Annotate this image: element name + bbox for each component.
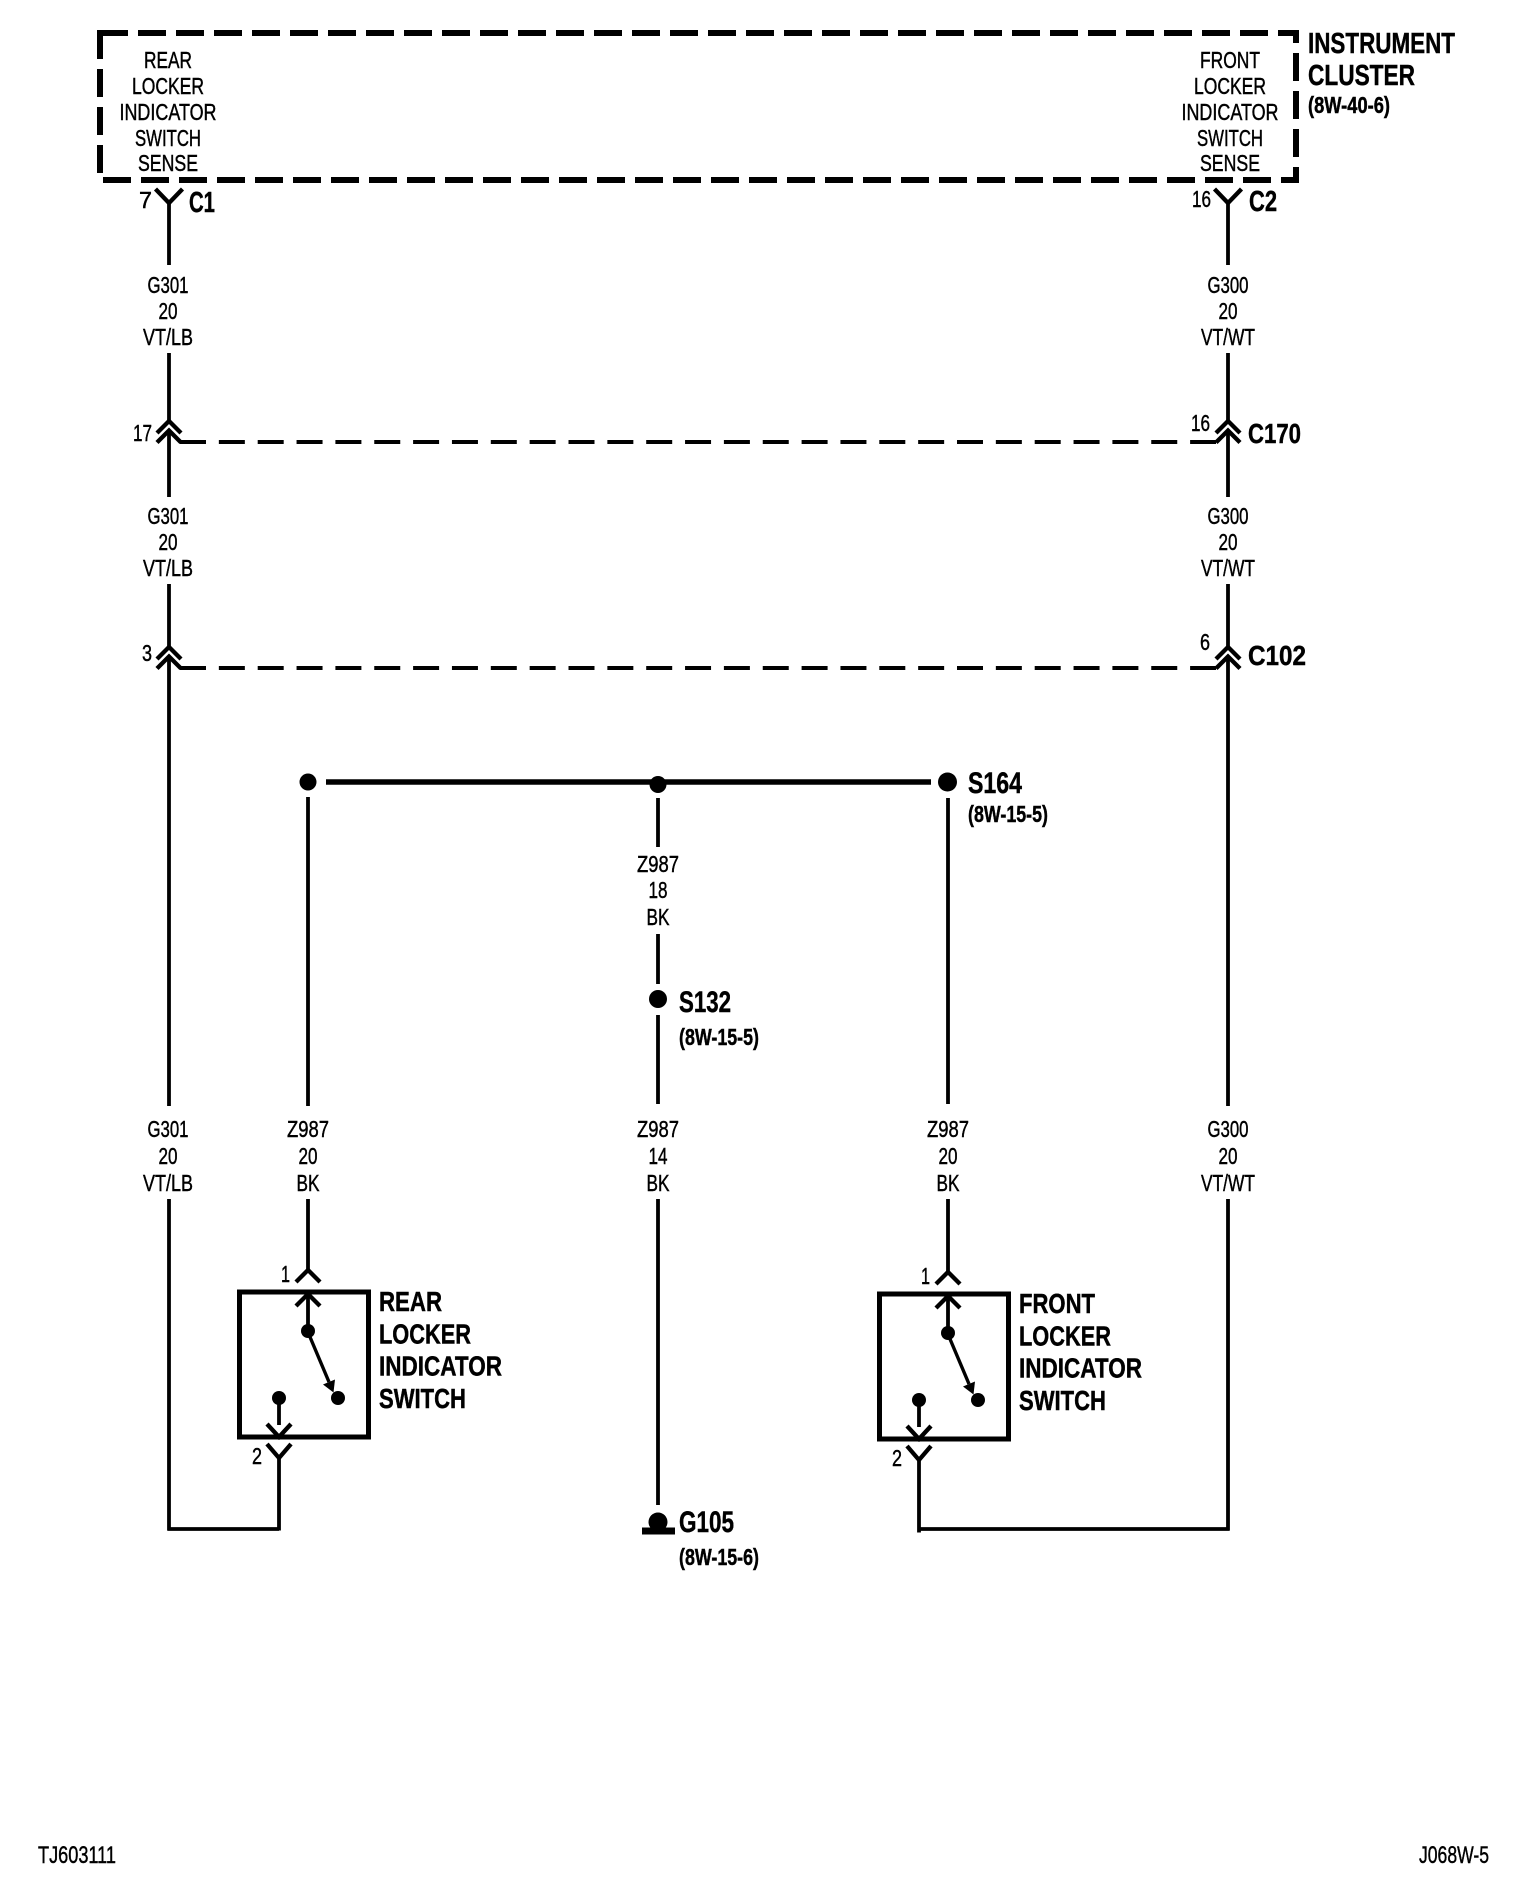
- rear locker indicator switch closed-position contact dot: [331, 1391, 345, 1405]
- svg-text:INSTRUMENT: INSTRUMENT: [1308, 28, 1455, 60]
- wire Z987 14 (S132 down to label): [656, 1015, 660, 1104]
- wire G301 (C1 to label): [167, 203, 171, 265]
- wire Z987 20 (label to rear switch pin 1): [306, 1199, 310, 1271]
- svg-text:CLUSTER: CLUSTER: [1308, 60, 1415, 92]
- svg-text:BK: BK: [297, 1170, 320, 1196]
- svg-text:(8W-15-5): (8W-15-5): [968, 801, 1048, 827]
- wire label Z987 20 BK (rear switch feed): [287, 1116, 329, 1196]
- connector C102 left half (pin 3): [142, 640, 181, 669]
- front locker indicator switch pin-2 internal lead: [907, 1406, 931, 1439]
- svg-text:BK: BK: [647, 1170, 670, 1196]
- wire Z987 20 (bus to lower label, rear): [306, 797, 310, 1106]
- svg-text:3: 3: [142, 640, 152, 666]
- svg-text:FRONT: FRONT: [1200, 47, 1260, 73]
- wire G300 (label to C170): [1226, 353, 1230, 421]
- svg-text:1: 1: [921, 1263, 930, 1289]
- svg-text:Z987: Z987: [927, 1116, 969, 1142]
- svg-text:G300: G300: [1208, 1116, 1249, 1142]
- wire G301 (C102 down to lower label): [167, 657, 171, 1107]
- front locker indicator switch pin 2 connector: [892, 1445, 931, 1533]
- node: front locker indicator switch sense (cluster pin label): [1182, 47, 1279, 176]
- front locker indicator switch pin-2 contact dot: [912, 1393, 926, 1407]
- splice S164 dot and label: [938, 767, 1048, 827]
- sheet number J068W-5: [1419, 1842, 1489, 1869]
- wire label Z987 20 BK (front switch feed): [927, 1116, 969, 1196]
- svg-text:Z987: Z987: [287, 1116, 329, 1142]
- wire G301 (label to C102): [167, 584, 171, 647]
- wire label Z987 14 BK: [637, 1116, 679, 1196]
- svg-text:VT/LB: VT/LB: [143, 555, 193, 581]
- svg-text:20: 20: [159, 298, 178, 324]
- ground G105 symbol and label: [642, 1506, 759, 1570]
- svg-text:VT/LB: VT/LB: [143, 1170, 193, 1196]
- svg-text:J068W-5: J068W-5: [1419, 1842, 1489, 1869]
- connector C2 pin 16: [1192, 186, 1277, 218]
- rear locker indicator switch pin 1 connector: [281, 1261, 320, 1287]
- svg-text:G105: G105: [679, 1506, 734, 1539]
- junction dot at left end of bus: [300, 774, 317, 791]
- wire label G301 20 VT/LB (mid left): [143, 503, 193, 581]
- svg-text:SENSE: SENSE: [138, 150, 198, 176]
- svg-text:VT/LB: VT/LB: [143, 324, 193, 350]
- svg-text:FRONT: FRONT: [1019, 1288, 1095, 1319]
- svg-text:BK: BK: [937, 1170, 960, 1196]
- front locker indicator switch closed-position contact dot: [971, 1393, 985, 1407]
- svg-text:C102: C102: [1248, 640, 1306, 671]
- svg-text:C170: C170: [1248, 418, 1301, 449]
- wire label Z987 18 BK: [637, 851, 679, 930]
- svg-text:17: 17: [133, 420, 152, 446]
- svg-text:INDICATOR: INDICATOR: [379, 1351, 502, 1382]
- wire Z987 18 (bus to label): [656, 798, 660, 847]
- svg-text:S132: S132: [679, 986, 731, 1019]
- svg-text:LOCKER: LOCKER: [132, 73, 204, 99]
- svg-text:14: 14: [649, 1143, 668, 1169]
- rear locker indicator switch caption: [379, 1286, 502, 1414]
- svg-text:C1: C1: [189, 187, 215, 219]
- svg-text:G300: G300: [1208, 272, 1249, 298]
- svg-text:BK: BK: [647, 904, 670, 930]
- svg-text:20: 20: [1219, 529, 1238, 555]
- svg-text:TJ603111: TJ603111: [38, 1842, 116, 1869]
- wire label G301 20 VT/LB (lower left): [143, 1116, 193, 1196]
- svg-text:SWITCH: SWITCH: [1197, 125, 1263, 151]
- wire G301 (label to C170): [167, 353, 171, 421]
- svg-text:INDICATOR: INDICATOR: [1182, 99, 1279, 125]
- svg-text:Z987: Z987: [637, 1116, 679, 1142]
- node: rear locker indicator switch sense (cluster pin label): [120, 47, 217, 176]
- svg-text:LOCKER: LOCKER: [1019, 1320, 1111, 1351]
- rear locker indicator switch switch arm (movable contact): [310, 1337, 335, 1393]
- svg-text:SENSE: SENSE: [1200, 150, 1260, 176]
- wire G300 (C2 to label): [1226, 203, 1230, 265]
- svg-text:LOCKER: LOCKER: [379, 1318, 471, 1349]
- wire label G301 20 VT/LB (upper left): [143, 272, 193, 350]
- connector C170 right half (pin 16): [1191, 410, 1301, 449]
- wire Z987 20 (label to front switch pin 1): [946, 1199, 950, 1271]
- svg-text:16: 16: [1192, 186, 1211, 212]
- wire G300 (label to C102): [1226, 584, 1230, 647]
- front locker indicator switch common contact dot: [941, 1326, 955, 1340]
- wire Z987 20 (bus to lower label, front): [946, 798, 950, 1104]
- rear locker indicator switch body (box): [240, 1292, 369, 1437]
- svg-text:20: 20: [1219, 298, 1238, 324]
- svg-text:20: 20: [159, 1143, 178, 1169]
- svg-text:7: 7: [139, 187, 152, 213]
- wire Z987 (label to S132): [656, 934, 660, 984]
- svg-text:(8W-15-6): (8W-15-6): [679, 1544, 759, 1570]
- svg-text:VT/WT: VT/WT: [1201, 324, 1255, 350]
- svg-text:20: 20: [1219, 1143, 1238, 1169]
- splice S132 dot and label: [649, 986, 759, 1050]
- svg-text:G301: G301: [148, 503, 189, 529]
- svg-text:SWITCH: SWITCH: [135, 125, 201, 151]
- rear locker indicator switch pin-2 internal lead: [267, 1404, 291, 1437]
- svg-text:VT/WT: VT/WT: [1201, 555, 1255, 581]
- front locker indicator switch body (box): [880, 1294, 1009, 1439]
- svg-text:INDICATOR: INDICATOR: [1019, 1353, 1142, 1384]
- svg-text:G301: G301: [148, 272, 189, 298]
- svg-text:LOCKER: LOCKER: [1194, 73, 1266, 99]
- instrument cluster caption: [1308, 28, 1455, 118]
- front locker indicator switch switch arm (movable contact): [950, 1339, 975, 1395]
- junction dot at middle of bus: [650, 776, 667, 793]
- svg-text:(8W-15-5): (8W-15-5): [679, 1024, 759, 1050]
- svg-text:Z987: Z987: [637, 851, 679, 877]
- wire G301 jog to rear switch pin 2: [168, 1527, 280, 1531]
- wire label G300 20 VT/WT (lower right): [1201, 1116, 1255, 1196]
- svg-text:SWITCH: SWITCH: [1019, 1385, 1106, 1416]
- rear locker indicator switch common contact dot: [301, 1324, 315, 1338]
- svg-text:SWITCH: SWITCH: [379, 1383, 466, 1414]
- svg-text:VT/WT: VT/WT: [1201, 1170, 1255, 1196]
- svg-text:18: 18: [649, 877, 668, 903]
- wire label G300 20 VT/WT (mid right): [1201, 503, 1255, 581]
- connector C170 separation line (dashed): [180, 440, 1216, 444]
- front locker indicator switch pin 1 connector: [921, 1263, 960, 1289]
- svg-text:20: 20: [299, 1143, 318, 1169]
- front locker indicator switch internal pin-1 arrow: [936, 1296, 960, 1327]
- wire G300 (C170 to label): [1226, 431, 1230, 498]
- wire G301 (label down to jog): [167, 1199, 171, 1531]
- svg-text:INDICATOR: INDICATOR: [120, 99, 217, 125]
- svg-text:6: 6: [1200, 629, 1210, 655]
- wire G300 (label down to jog): [1226, 1199, 1230, 1531]
- connector C1 pin 7: [139, 187, 215, 219]
- svg-text:G301: G301: [148, 1116, 189, 1142]
- rear locker indicator switch pin 2 connector: [252, 1443, 291, 1531]
- rear locker indicator switch pin-2 contact dot: [272, 1391, 286, 1405]
- connector C170 left half (pin 17): [133, 420, 181, 446]
- svg-text:20: 20: [159, 529, 178, 555]
- svg-text:20: 20: [939, 1143, 958, 1169]
- svg-text:16: 16: [1191, 410, 1210, 436]
- svg-text:REAR: REAR: [379, 1286, 442, 1317]
- svg-text:1: 1: [281, 1261, 290, 1287]
- instrument cluster boundary (dashed box): [100, 33, 1296, 180]
- svg-text:(8W-40-6): (8W-40-6): [1308, 92, 1390, 118]
- front locker indicator switch caption: [1019, 1288, 1142, 1416]
- sheet number TJ603111: [38, 1842, 116, 1869]
- svg-text:REAR: REAR: [144, 47, 192, 73]
- wire Z987 splice bus: [326, 779, 931, 785]
- svg-text:2: 2: [252, 1443, 262, 1469]
- svg-text:S164: S164: [968, 767, 1022, 800]
- wire G300 (C102 down to lower label): [1226, 657, 1230, 1107]
- rear locker indicator switch internal pin-1 arrow: [296, 1294, 320, 1325]
- connector C102 right half (pin 6): [1200, 629, 1306, 671]
- wire label G300 20 VT/WT (upper right): [1201, 272, 1255, 350]
- svg-text:C2: C2: [1249, 186, 1277, 218]
- wire front switch pin 2 jog to G300: [919, 1527, 1230, 1531]
- svg-text:G300: G300: [1208, 503, 1249, 529]
- wire G301 (C170 to label): [167, 431, 171, 498]
- svg-text:2: 2: [892, 1445, 902, 1471]
- wire Z987 14 (label to ground): [656, 1199, 660, 1505]
- connector C102 separation line (dashed): [180, 666, 1216, 670]
